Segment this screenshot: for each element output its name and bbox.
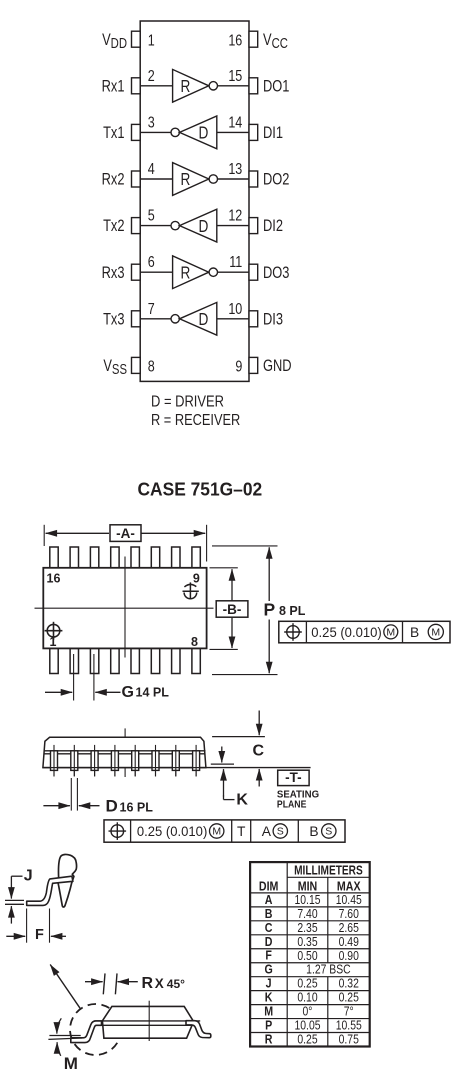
svg-text:F: F <box>35 927 44 943</box>
svg-text:45°: 45° <box>167 977 185 991</box>
svg-text:D: D <box>106 797 118 816</box>
svg-text:10.05: 10.05 <box>294 1019 320 1033</box>
svg-text:0.25 (0.010): 0.25 (0.010) <box>137 824 207 839</box>
svg-text:8: 8 <box>148 357 155 375</box>
svg-text:10.45: 10.45 <box>336 893 362 907</box>
svg-text:0.49: 0.49 <box>339 935 359 949</box>
svg-text:0.25: 0.25 <box>339 991 360 1005</box>
svg-text:M: M <box>431 627 440 639</box>
svg-text:2.35: 2.35 <box>297 921 318 935</box>
svg-text:R: R <box>180 78 190 97</box>
svg-text:10: 10 <box>228 300 242 318</box>
svg-text:16 PL: 16 PL <box>120 800 154 814</box>
svg-text:7°: 7° <box>344 1005 354 1019</box>
svg-text:2: 2 <box>148 67 155 85</box>
svg-text:D: D <box>199 311 209 330</box>
svg-text:DI2: DI2 <box>263 218 283 236</box>
svg-text:B: B <box>309 824 318 839</box>
svg-text:0.32: 0.32 <box>339 977 359 991</box>
svg-text:GND: GND <box>263 358 292 376</box>
svg-text:16: 16 <box>47 571 61 585</box>
svg-text:P: P <box>264 599 276 619</box>
svg-text:X: X <box>155 976 164 991</box>
svg-text:B: B <box>410 625 419 640</box>
svg-text:14 PL: 14 PL <box>136 686 170 700</box>
svg-text:Tx3: Tx3 <box>103 311 124 329</box>
svg-text:10.15: 10.15 <box>294 893 320 907</box>
svg-text:R: R <box>180 171 190 190</box>
svg-text:DO1: DO1 <box>263 78 289 96</box>
svg-text:R: R <box>142 975 154 992</box>
svg-text:8 PL: 8 PL <box>279 604 306 618</box>
svg-text:M: M <box>212 826 221 838</box>
svg-text:12: 12 <box>228 206 242 224</box>
svg-text:R = RECEIVER: R = RECEIVER <box>151 412 240 429</box>
svg-text:2.65: 2.65 <box>339 921 360 935</box>
svg-text:D = DRIVER: D = DRIVER <box>151 394 224 411</box>
svg-text:K: K <box>236 791 248 808</box>
svg-text:DO2: DO2 <box>263 171 289 189</box>
svg-text:Tx1: Tx1 <box>103 125 124 143</box>
svg-text:-B-: -B- <box>223 602 242 617</box>
svg-text:9: 9 <box>235 357 242 375</box>
svg-text:4: 4 <box>148 160 155 178</box>
svg-text:D: D <box>199 217 209 236</box>
svg-text:G: G <box>122 684 134 701</box>
svg-text:13: 13 <box>228 160 242 178</box>
svg-text:MILLIMETERS: MILLIMETERS <box>294 863 363 877</box>
svg-text:DO3: DO3 <box>263 264 289 282</box>
svg-text:3: 3 <box>148 113 155 131</box>
svg-text:8: 8 <box>191 635 198 649</box>
svg-text:CASE 751G–02: CASE 751G–02 <box>138 478 263 499</box>
svg-text:VCC: VCC <box>263 31 288 51</box>
svg-text:R: R <box>180 264 190 283</box>
svg-text:R: R <box>265 1032 273 1047</box>
svg-text:-T-: -T- <box>285 770 302 785</box>
svg-text:-A-: -A- <box>116 526 135 541</box>
svg-text:MIN: MIN <box>298 878 318 893</box>
svg-text:Rx2: Rx2 <box>102 171 125 189</box>
svg-text:15: 15 <box>228 67 242 85</box>
svg-text:0.25: 0.25 <box>297 1032 318 1046</box>
svg-text:C: C <box>253 742 265 759</box>
svg-text:J: J <box>24 867 33 884</box>
svg-text:PLANE: PLANE <box>277 798 307 810</box>
svg-text:0.35: 0.35 <box>297 935 318 949</box>
svg-text:1.27 BSC: 1.27 BSC <box>306 963 351 977</box>
svg-text:0.10: 0.10 <box>297 991 318 1005</box>
svg-text:16: 16 <box>228 31 242 49</box>
svg-text:10.55: 10.55 <box>336 1019 362 1033</box>
svg-text:M: M <box>64 1054 78 1073</box>
svg-text:VSS: VSS <box>103 358 127 378</box>
svg-text:0.25: 0.25 <box>297 977 318 991</box>
svg-text:A: A <box>262 824 272 839</box>
svg-text:0°: 0° <box>303 1005 313 1019</box>
svg-text:0.75: 0.75 <box>339 1032 360 1046</box>
svg-text:7: 7 <box>148 300 155 318</box>
svg-text:5: 5 <box>148 206 155 224</box>
svg-text:D: D <box>199 124 209 143</box>
svg-text:7.60: 7.60 <box>339 907 360 921</box>
svg-text:S: S <box>277 826 284 838</box>
svg-text:Rx1: Rx1 <box>102 78 125 96</box>
svg-text:1: 1 <box>148 31 155 49</box>
svg-text:MAX: MAX <box>337 878 361 893</box>
svg-text:6: 6 <box>148 253 155 271</box>
svg-text:0.25 (0.010): 0.25 (0.010) <box>311 625 381 640</box>
svg-text:M: M <box>386 627 395 639</box>
svg-text:DI1: DI1 <box>263 125 283 143</box>
svg-text:VDD: VDD <box>102 31 127 51</box>
svg-text:7.40: 7.40 <box>297 907 318 921</box>
svg-text:DI3: DI3 <box>263 311 283 329</box>
svg-text:Tx2: Tx2 <box>103 218 124 236</box>
svg-text:14: 14 <box>228 113 242 131</box>
svg-text:Rx3: Rx3 <box>102 264 125 282</box>
svg-text:S: S <box>325 826 332 838</box>
svg-text:0.90: 0.90 <box>339 949 360 963</box>
svg-text:9: 9 <box>193 571 200 585</box>
svg-text:11: 11 <box>229 253 242 271</box>
svg-text:0.50: 0.50 <box>297 949 318 963</box>
svg-text:T: T <box>237 824 246 839</box>
